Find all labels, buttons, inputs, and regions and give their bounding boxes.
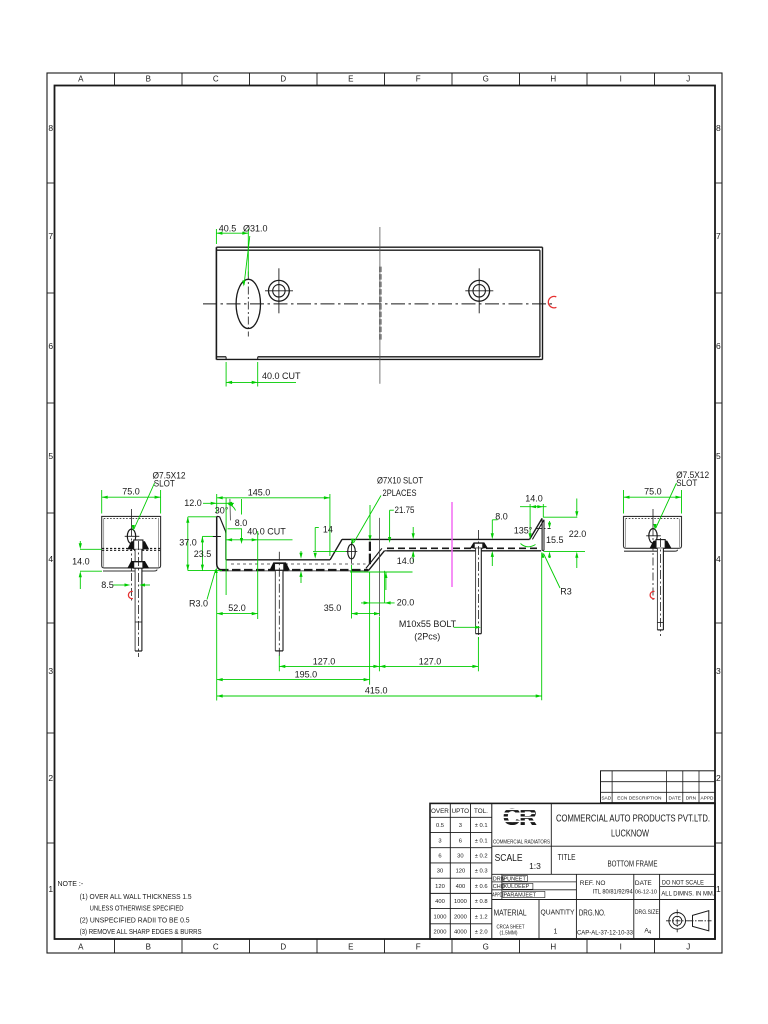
svg-text:127.0: 127.0	[419, 656, 442, 666]
svg-text:REF. NO: REF. NO	[580, 880, 606, 887]
do not scale cell	[661, 880, 714, 898]
front view bolt1 centreline	[278, 552, 280, 656]
svg-text:75.0: 75.0	[122, 487, 140, 497]
left view slot ellipse	[125, 509, 140, 603]
svg-text:QUANTITY: QUANTITY	[541, 908, 575, 917]
svg-text:1:3: 1:3	[529, 861, 541, 871]
front view thin vertical reference line	[378, 518, 380, 617]
svg-text:20.0: 20.0	[397, 598, 415, 608]
right view bolt shaft	[657, 548, 663, 630]
svg-text:2: 2	[716, 773, 721, 783]
svg-text:6: 6	[716, 341, 721, 351]
svg-text:UNLESS OTHERWISE SPECIFIED: UNLESS OTHERWISE SPECIFIED	[90, 906, 184, 913]
svg-text:B: B	[146, 943, 151, 952]
svg-text:6: 6	[48, 341, 53, 351]
svg-text:DRN: DRN	[686, 796, 697, 802]
left view lower washer	[127, 561, 149, 568]
svg-text:MATERIAL: MATERIAL	[494, 908, 527, 918]
label dia 7.5X12 SLOT right view	[653, 470, 709, 530]
front view 135deg bend slant outer	[530, 518, 543, 539]
dimension 40.0 CUT front view	[226, 498, 292, 619]
svg-text:G: G	[483, 943, 489, 952]
svg-text:14.0: 14.0	[397, 556, 415, 566]
top view bolt symbol right	[465, 268, 493, 313]
dimension 8.0 right	[491, 512, 508, 567]
svg-text:1000: 1000	[434, 914, 447, 920]
company name	[556, 814, 710, 840]
svg-text:SLOT: SLOT	[154, 478, 175, 488]
svg-text:E: E	[348, 943, 353, 952]
svg-text:6: 6	[459, 838, 462, 844]
svg-text:06-12-10: 06-12-10	[635, 890, 657, 896]
svg-text:75.0: 75.0	[644, 487, 662, 497]
right view red mark	[650, 591, 654, 598]
svg-text:8.0: 8.0	[235, 518, 248, 528]
left view bolt centreline	[137, 541, 139, 657]
dimension 75.0 left view	[102, 487, 161, 514]
svg-text:14.0: 14.0	[525, 494, 543, 504]
svg-text:30: 30	[457, 854, 463, 860]
dimension 20.0	[361, 571, 414, 608]
svg-text:APPD: APPD	[492, 893, 502, 899]
dimension 23.5	[194, 536, 213, 570]
svg-text:(2) UNSPECIFIED RADII TO BE 0.: (2) UNSPECIFIED RADII TO BE 0.5	[80, 917, 190, 924]
front view 135deg bend slant inner	[532, 520, 544, 540]
dimension 52.0	[217, 573, 258, 701]
front view bolt1 washer	[270, 562, 290, 570]
front view bottom flange top line	[226, 559, 330, 561]
svg-text:UPTO: UPTO	[452, 808, 469, 815]
dimension 15.5	[546, 521, 564, 558]
grid row numbers right	[716, 123, 721, 894]
svg-text:OVER: OVER	[431, 808, 449, 815]
svg-text:TOL.: TOL.	[474, 808, 488, 815]
svg-text:3: 3	[438, 838, 441, 844]
front view 30deg reference line	[229, 499, 232, 521]
top view hole 31mm ellipse	[236, 272, 260, 337]
grid row ticks left band	[47, 183, 55, 843]
svg-text:ITL 80/81/92/94: ITL 80/81/92/94	[593, 889, 634, 896]
svg-text:NOTE :-: NOTE :-	[58, 881, 84, 888]
svg-text:E: E	[348, 75, 353, 84]
svg-text:21.75: 21.75	[395, 505, 415, 515]
label M10x55 BOLT 2Pcs with leader	[399, 619, 481, 641]
front view top line of raised strip	[342, 538, 530, 540]
svg-text:30: 30	[437, 869, 443, 875]
dimension 12.0	[184, 498, 234, 508]
svg-text:40.0 CUT: 40.0 CUT	[247, 527, 286, 537]
svg-text:1: 1	[48, 884, 53, 894]
front view tab centreline	[536, 528, 551, 530]
dimension 14.0 left view	[72, 541, 102, 589]
svg-text:7: 7	[48, 231, 53, 241]
svg-text:TITLE: TITLE	[558, 852, 576, 862]
svg-text:8.0: 8.0	[495, 512, 508, 522]
135 degree bend arc	[521, 544, 536, 547]
quantity cell	[541, 908, 575, 936]
front view hump slot hidden edge dashes	[369, 542, 371, 565]
svg-text:2000: 2000	[454, 914, 467, 920]
front view hump slot ellipse	[346, 542, 358, 564]
svg-text:8: 8	[48, 123, 53, 133]
drawn checked approved rows	[492, 876, 545, 899]
dimension 145.0	[217, 487, 330, 556]
label dia 7.5X12 SLOT left view	[132, 470, 186, 531]
title cell	[558, 852, 658, 869]
top view plate outline	[216, 247, 542, 359]
right view slot ellipse	[646, 509, 661, 600]
svg-text:2: 2	[48, 773, 53, 783]
front view bolt2 washer	[470, 542, 488, 548]
svg-text:3: 3	[459, 823, 462, 829]
left view red mark	[128, 591, 132, 598]
front view Z-step slant inner	[366, 548, 382, 568]
svg-text:Ø7X10 SLOT: Ø7X10 SLOT	[377, 476, 423, 486]
front view left wall top edge	[217, 515, 220, 517]
svg-text:8.5: 8.5	[101, 580, 114, 590]
svg-text:3: 3	[48, 666, 53, 676]
svg-text:195.0: 195.0	[295, 669, 318, 679]
sheet outer border	[47, 73, 722, 953]
svg-text:(2Pcs): (2Pcs)	[414, 631, 440, 641]
svg-text:H: H	[550, 75, 556, 84]
svg-text:120: 120	[456, 869, 466, 875]
svg-text:R3.0: R3.0	[189, 599, 208, 609]
svg-text:14: 14	[323, 525, 333, 535]
svg-text:0.5: 0.5	[436, 823, 444, 829]
front view strip hidden dashed line	[387, 547, 540, 549]
label dia 7X10 SLOT 2PLACES	[351, 476, 424, 545]
dimension 127.0 left	[279, 617, 379, 671]
svg-text:6: 6	[438, 854, 441, 860]
svg-text:APPD: APPD	[700, 796, 714, 802]
top view centre weld bar	[379, 267, 382, 341]
svg-text:7: 7	[716, 231, 721, 241]
svg-text:A: A	[78, 943, 84, 952]
top view centre section line	[379, 227, 381, 384]
svg-text:DRG.NO.: DRG.NO.	[579, 908, 606, 918]
label R3 with leader	[541, 552, 571, 596]
svg-text:DATE: DATE	[635, 880, 653, 887]
svg-text:F: F	[416, 75, 421, 84]
svg-text:40.0 CUT: 40.0 CUT	[262, 371, 301, 381]
front view wall slot centre tick	[213, 536, 221, 538]
front view bolt2 centreline	[477, 530, 479, 640]
dimension 14.0 strip	[350, 527, 415, 590]
svg-text:3: 3	[716, 666, 721, 676]
dimension 75.0 right view	[624, 487, 682, 514]
svg-text:± 1.2: ± 1.2	[475, 914, 488, 920]
left side view box	[102, 516, 161, 571]
drg no cell	[577, 908, 634, 937]
label R3.0 with leader	[189, 568, 218, 609]
dimension 415.0	[217, 553, 542, 701]
right view bolt centreline	[659, 538, 661, 636]
svg-text:J: J	[686, 943, 690, 952]
svg-text:SLOT: SLOT	[676, 478, 697, 488]
svg-text:135°: 135°	[514, 525, 533, 535]
svg-text:C: C	[213, 943, 219, 952]
grid row ticks right band	[715, 183, 722, 843]
front view flange hidden dashed line	[231, 563, 366, 565]
svg-text:± 0.8: ± 0.8	[475, 899, 488, 905]
sheet inner border	[55, 86, 716, 940]
dimension 37.0	[179, 517, 222, 571]
svg-text:400: 400	[435, 899, 445, 905]
svg-text:5: 5	[48, 451, 53, 461]
front view strip bottom solid line	[387, 550, 542, 552]
svg-text:BOTTOM FRAME: BOTTOM FRAME	[608, 860, 658, 869]
svg-text:COMMERCIAL AUTO PRODUCTS PVT.L: COMMERCIAL AUTO PRODUCTS PVT.LTD.	[556, 814, 710, 825]
dimension 40.5 top view	[216, 223, 248, 276]
grid column ticks bottom band	[115, 939, 655, 953]
dimension 40.0 CUT top view	[226, 362, 301, 387]
svg-text:D: D	[280, 943, 286, 952]
dimension 30 degrees	[215, 503, 236, 516]
svg-text:4: 4	[48, 554, 53, 564]
svg-text:DATE: DATE	[668, 796, 680, 802]
svg-text:12.0: 12.0	[184, 498, 202, 508]
svg-text:1000: 1000	[454, 899, 467, 905]
svg-text:400: 400	[456, 884, 466, 890]
svg-text:G: G	[483, 75, 489, 84]
third angle projection symbol	[666, 910, 712, 933]
revision table	[601, 771, 716, 803]
svg-text:415.0: 415.0	[365, 686, 388, 696]
dimension 195.0	[217, 572, 370, 685]
svg-text:F: F	[416, 943, 421, 952]
svg-text:35.0: 35.0	[324, 603, 342, 613]
svg-text:± 0.1: ± 0.1	[475, 823, 488, 829]
svg-text:± 0.6: ± 0.6	[475, 884, 488, 890]
svg-text:± 2.0: ± 2.0	[475, 930, 488, 936]
svg-text:23.5: 23.5	[194, 549, 212, 559]
dimension 14 hump slot leader	[313, 525, 346, 559]
svg-text:LUCKNOW: LUCKNOW	[611, 829, 649, 840]
svg-text:127.0: 127.0	[313, 656, 336, 666]
svg-text:± 0.2: ± 0.2	[475, 854, 488, 860]
front view Z-step connector	[384, 550, 386, 552]
dimension 22.0	[543, 499, 586, 569]
svg-text:2PLACES: 2PLACES	[383, 488, 417, 498]
grid column letters top	[78, 75, 690, 84]
left view bolt shaft	[135, 549, 142, 651]
svg-text:145.0: 145.0	[248, 487, 271, 497]
flange thickness arrows	[299, 551, 302, 583]
svg-text:2000: 2000	[434, 930, 447, 936]
grid column ticks top band	[115, 73, 655, 86]
scale cell	[495, 853, 542, 871]
svg-text:DRG.SIZE: DRG.SIZE	[635, 909, 659, 916]
svg-text:14.0: 14.0	[72, 556, 90, 566]
svg-text:I: I	[620, 75, 622, 84]
left view upper washer and bolt head	[127, 540, 149, 549]
svg-text:R3: R3	[560, 586, 572, 596]
tolerance table header and values	[431, 808, 488, 936]
svg-text:52.0: 52.0	[228, 603, 246, 613]
svg-text:4000: 4000	[454, 930, 467, 936]
dimension 21.75	[368, 505, 414, 543]
front view bolt1 shaft	[275, 571, 283, 651]
front view magenta centre line	[451, 502, 453, 587]
svg-text:D: D	[280, 75, 286, 84]
svg-text:5: 5	[716, 451, 721, 461]
right side view box	[624, 516, 682, 551]
svg-text:± 0.3: ± 0.3	[475, 869, 488, 875]
notes text block	[58, 881, 202, 936]
svg-text:SAD: SAD	[601, 796, 611, 802]
svg-text:(3) REMOVE ALL SHARP EDGES & B: (3) REMOVE ALL SHARP EDGES & BURRS	[80, 929, 202, 936]
svg-text:ECN DESCRIPTION: ECN DESCRIPTION	[617, 796, 662, 802]
front view Z-step slant outer	[368, 551, 384, 571]
svg-text:J: J	[686, 75, 690, 84]
top view horizontal centerline	[203, 303, 554, 305]
svg-text:M10x55 BOLT: M10x55 BOLT	[399, 619, 457, 629]
label dia 31.0 with leader	[242, 223, 267, 286]
front view flange bottom thick dashed edge	[220, 569, 368, 571]
svg-text:1: 1	[554, 929, 558, 936]
front view hump left slant	[330, 539, 342, 559]
front view left wall inner 30deg bend line	[220, 517, 226, 560]
svg-text:30°: 30°	[215, 506, 229, 516]
svg-text:ALL DIMNS. IN MM.: ALL DIMNS. IN MM.	[661, 891, 714, 898]
svg-text:37.0: 37.0	[179, 538, 197, 548]
svg-text:B: B	[146, 75, 151, 84]
svg-text:A: A	[78, 75, 84, 84]
title block grid	[430, 803, 715, 939]
dimension 35.0	[324, 565, 380, 619]
svg-text:Ø31.0: Ø31.0	[243, 223, 268, 233]
svg-text:± 0.1: ± 0.1	[475, 838, 488, 844]
dimension 127.0 right	[379, 637, 478, 671]
front view bolt2 shaft	[476, 548, 482, 633]
material cell	[494, 908, 527, 937]
svg-text:COMMERCIAL RADIATORS: COMMERCIAL RADIATORS	[493, 839, 550, 845]
svg-text:I: I	[620, 943, 622, 952]
svg-text:DO NOT SCALE: DO NOT SCALE	[662, 880, 705, 887]
front view right tab verticals	[542, 518, 544, 550]
svg-text:H: H	[550, 943, 556, 952]
svg-text:SCALE: SCALE	[495, 853, 523, 864]
svg-text:C: C	[213, 75, 219, 84]
right view washer and bolt head	[650, 540, 672, 549]
dimension 8.5 left view	[101, 580, 150, 590]
front view flange bottom thin line	[220, 570, 369, 572]
svg-text:4: 4	[716, 554, 721, 564]
grid row numbers left	[48, 123, 53, 894]
drg size cell	[635, 909, 659, 936]
ref no cell	[580, 880, 633, 896]
svg-text:4: 4	[648, 930, 651, 936]
svg-text:120: 120	[435, 884, 445, 890]
svg-text:CAP-AL-37-12-10-33: CAP-AL-37-12-10-33	[577, 930, 634, 937]
svg-text:22.0: 22.0	[569, 529, 587, 539]
svg-text:1: 1	[716, 884, 721, 894]
svg-text:(1.5MM): (1.5MM)	[500, 931, 518, 937]
svg-text:(1) OVER ALL WALL THICKNESS 1.: (1) OVER ALL WALL THICKNESS 1.5	[80, 894, 192, 901]
svg-text:8: 8	[716, 123, 721, 133]
svg-text:40.5: 40.5	[219, 223, 237, 233]
dimension 14.0 tab	[520, 494, 547, 540]
top view bolt symbol left	[265, 268, 293, 313]
top view red section mark	[548, 296, 556, 307]
grid column letters bottom	[78, 943, 690, 952]
CR logo	[503, 804, 537, 831]
front view left wall outer line with R3 corner	[217, 516, 224, 570]
date cell	[635, 880, 657, 896]
svg-text:15.5: 15.5	[546, 535, 564, 545]
dimension 8.0 left	[228, 499, 248, 544]
